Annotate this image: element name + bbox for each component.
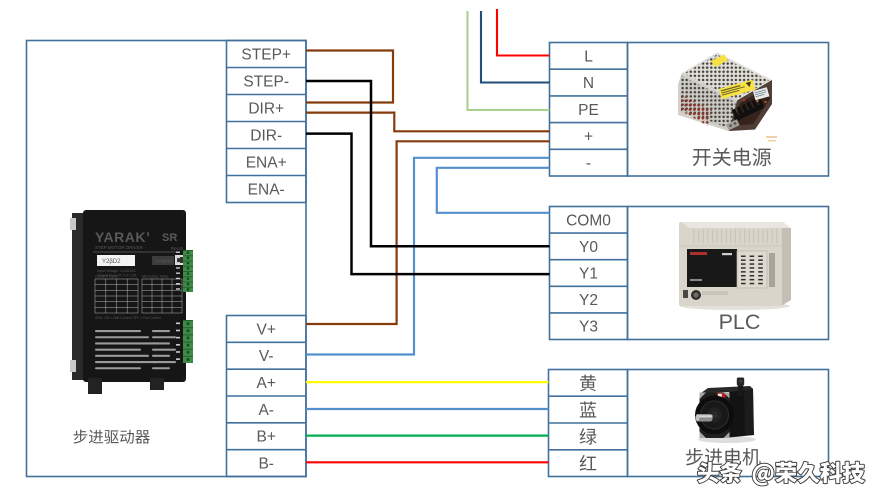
driver photo: LED codes text block xyxy=(95,330,176,369)
svg-text:B+: B+ xyxy=(257,429,276,446)
wire B- to motor red xyxy=(306,461,549,463)
svg-text:V-: V- xyxy=(259,348,274,365)
svg-text:PE: PE xyxy=(578,102,599,119)
wire -V supply to PLC COM0 (blue) xyxy=(437,168,550,213)
wire AC neutral N (navy) xyxy=(481,11,550,83)
svg-text:PLC: PLC xyxy=(719,310,761,334)
label 蓝 (motor wire color) xyxy=(580,401,596,417)
caption 步进驱动器 (stepper driver) xyxy=(74,429,150,443)
wire B+ to motor green xyxy=(306,435,549,437)
svg-text:Y2: Y2 xyxy=(579,292,598,309)
power supply box xyxy=(628,43,829,177)
svg-text:COM0: COM0 xyxy=(566,212,611,229)
wire A- to motor blue xyxy=(306,408,549,410)
svg-text:STEP+: STEP+ xyxy=(241,47,291,64)
svg-text:Microstep Table: Microstep Table xyxy=(142,275,169,279)
watermark 头条@荣久科技 xyxy=(698,462,865,486)
svg-text:Rev.B: Rev.B xyxy=(171,246,183,251)
svg-text:A-: A- xyxy=(258,402,274,419)
svg-text:SR: SR xyxy=(162,232,177,244)
power supply terminal labels (L N PE + -) xyxy=(550,43,628,177)
label 绿 (motor wire color) xyxy=(580,428,597,445)
svg-text:+: + xyxy=(584,128,593,145)
svg-text:STEP MOTOR DRIVER: STEP MOTOR DRIVER xyxy=(95,245,144,250)
svg-text:ENA-: ENA- xyxy=(248,182,285,199)
svg-text:Y2βD2: Y2βD2 xyxy=(102,259,121,265)
PLC output terminal labels (COM0 Y0-Y3) xyxy=(550,207,628,340)
svg-text:L: L xyxy=(584,48,593,65)
wire AC line L (red) xyxy=(497,9,550,56)
svg-text:-: - xyxy=(586,155,591,172)
wire earth PE (light green) xyxy=(468,11,550,110)
svg-text:Y0: Y0 xyxy=(579,239,598,256)
wire jumper STEP+ to DIR+ (brown) xyxy=(306,51,393,103)
PLC photo (Mitsubishi FX series) xyxy=(679,222,791,310)
svg-text:ENA+: ENA+ xyxy=(246,155,287,172)
svg-text:DIR+: DIR+ xyxy=(248,101,284,118)
caption 开关电源 (switching power supply) xyxy=(693,148,771,166)
svg-text:YARAK’: YARAK’ xyxy=(95,229,150,245)
stepper driver outline box U1 xyxy=(27,41,307,477)
svg-text:STEP-: STEP- xyxy=(243,74,289,91)
wire DIR- to PLC Y1 (black) xyxy=(306,134,550,275)
wire +V supply to driver V+ (brown) xyxy=(306,141,550,324)
caption 步进电机 (stepper motor) xyxy=(686,448,761,465)
svg-text:Current Table: Current Table xyxy=(95,275,118,279)
switching power supply photo xyxy=(678,53,772,132)
stepper motor box xyxy=(628,370,829,477)
faint watermark remnant near PSU xyxy=(766,136,777,142)
driver photo: green terminal connectors xyxy=(176,250,193,363)
svg-text:V+: V+ xyxy=(257,321,276,338)
stepper motor photo xyxy=(695,378,756,444)
svg-text:Input Voltage: 24-80VAC: Input Voltage: 24-80VAC xyxy=(97,269,137,273)
driver power/motor terminal block (V/A/B pins) xyxy=(227,316,307,477)
svg-text:SW4: ON = Half Current OFF: SW4: ON = Half Current OFF = Full Curren… xyxy=(95,316,161,320)
stepper motor wire color labels box xyxy=(549,370,628,477)
svg-text:B-: B- xyxy=(258,456,274,473)
svg-text:Serial No: Serial No xyxy=(155,259,174,264)
wire STEP- to PLC Y0 (black) xyxy=(306,81,550,246)
label 黄 (motor wire color) xyxy=(580,375,596,392)
wire DIR+ to +V supply (brown) xyxy=(306,113,550,132)
label 红 (motor wire color) xyxy=(580,455,597,471)
svg-text:DIR-: DIR- xyxy=(250,128,282,145)
driver signal terminal block (STEP/DIR/ENA pins) xyxy=(227,41,307,203)
stepper driver photo (YARAK SR step motor driver) xyxy=(70,210,186,394)
svg-text:Y1: Y1 xyxy=(579,266,598,283)
wire -V supply to driver V- (blue) xyxy=(306,158,550,355)
wire A+ to motor yellow xyxy=(306,381,549,383)
svg-text:Y3: Y3 xyxy=(579,319,598,336)
svg-text:N: N xyxy=(583,75,594,92)
PLC box xyxy=(628,207,829,340)
svg-text:A+: A+ xyxy=(257,375,276,392)
driver photo: current / microstep DIP tables xyxy=(95,279,182,313)
